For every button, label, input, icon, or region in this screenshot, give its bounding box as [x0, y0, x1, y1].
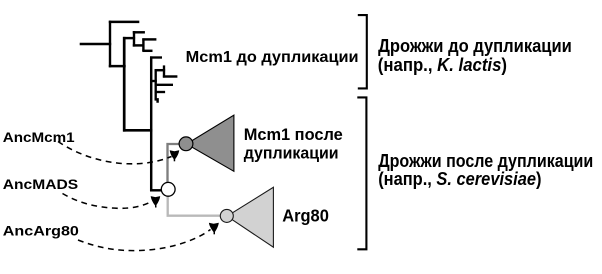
wire: tip a [133, 31, 145, 33]
node circle AncMcm1 [179, 137, 193, 151]
wire: V1 bottom to AncMADS node [150, 189, 162, 191]
node vertical subclade [142, 38, 144, 51]
wire: trunk bottom to V1 [123, 129, 152, 132]
svg-text:Мcm1 после: Мcm1 после [244, 125, 343, 144]
clade triangle Arg80 [227, 187, 273, 247]
svg-text:AncArg80: AncArg80 [3, 224, 79, 240]
wire: gray riser up to AncMcm1 [168, 144, 180, 183]
node circle AncArg80 [220, 209, 233, 222]
trunk vertical [123, 37, 126, 132]
svg-text:(напр., S. cerevisiae): (напр., S. cerevisiae) [378, 169, 541, 189]
node V1 long vertical [150, 56, 152, 191]
svg-text:Arg80: Arg80 [282, 206, 329, 226]
wire: light-gray drop to AncArg80 [168, 196, 221, 216]
svg-text:Дрожжи после дупликации: Дрожжи после дупликации [378, 151, 593, 171]
dashed arrow AncMcm1 [58, 142, 172, 164]
wire: V2 top to V3 [155, 69, 166, 71]
node vertical upper clade [133, 31, 135, 47]
arrowhead AncMcm1 [170, 150, 180, 160]
arrowhead AncArg80 [209, 223, 219, 233]
bracket yeast post-duplication [357, 97, 366, 249]
wire: tip c [142, 50, 152, 52]
bracket yeast pre-duplication [358, 15, 367, 88]
wire: to subclade [133, 44, 144, 46]
svg-text:AncMADS: AncMADS [3, 177, 78, 193]
node circle AncMADS [161, 182, 175, 196]
wire: trunk top to upper clade [123, 37, 135, 39]
wire: outgroup tip [109, 21, 140, 23]
wire: tip f [155, 84, 173, 86]
wire: tip e [163, 75, 178, 77]
arrowhead AncMADS [151, 196, 161, 206]
dashed arrow AncMADS [63, 194, 152, 209]
svg-text:(напр., K. lactis): (напр., K. lactis) [378, 55, 507, 75]
node V0 vertical [109, 21, 111, 68]
node V3 vertical [163, 65, 165, 77]
wire: root branch [80, 43, 112, 45]
svg-text:дупликации: дупликации [244, 144, 339, 163]
wire: hook tip h [155, 99, 158, 102]
dashed arrow AncArg80 [78, 230, 211, 251]
wire: V0 bottom to trunk [109, 65, 126, 67]
wire: tip d [150, 56, 162, 58]
wire: tip b [142, 38, 156, 40]
svg-text:AncMcm1: AncMcm1 [3, 130, 75, 146]
svg-text:Дрожжи до дупликации: Дрожжи до дупликации [378, 36, 572, 56]
clade triangle Mcm1 after duplication [187, 115, 234, 171]
wire: V1 to V2 [150, 80, 157, 82]
wire: tip g [155, 91, 166, 93]
svg-text:Мcm1 до дупликации: Мcm1 до дупликации [186, 49, 359, 66]
node V2 vertical [155, 69, 157, 100]
